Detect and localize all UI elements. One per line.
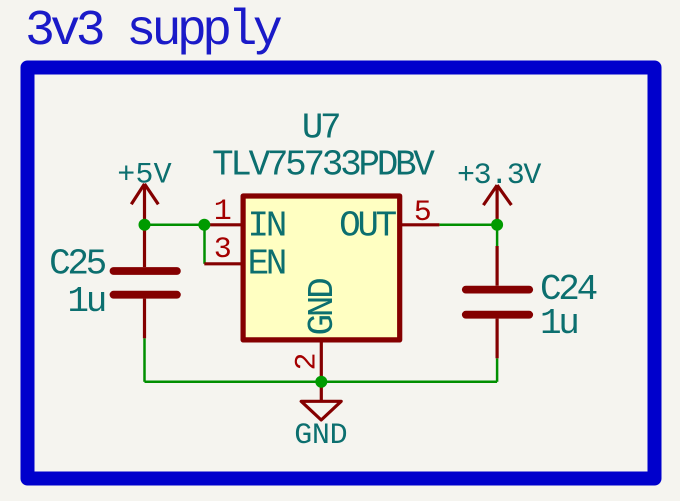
- power symbol +5V: [131, 184, 158, 225]
- svg-text:GND: GND: [294, 419, 347, 453]
- power symbol GND: [301, 382, 341, 420]
- pin 3 EN: [204, 262, 243, 265]
- wire ground bus: [145, 381, 498, 384]
- junction node +5V: [139, 219, 151, 231]
- svg-text:GND: GND: [302, 279, 343, 336]
- svg-text:1: 1: [214, 195, 231, 229]
- svg-text:TLV75733PDBV: TLV75733PDBV: [212, 144, 435, 185]
- svg-text:+3.3V: +3.3V: [457, 159, 541, 193]
- capacitor C25: [114, 225, 177, 338]
- regulator U7 body: [243, 196, 400, 340]
- wire C24 to ground bus: [496, 358, 499, 382]
- svg-text:3: 3: [214, 233, 231, 267]
- svg-text:IN: IN: [248, 206, 285, 247]
- pin 1 IN: [204, 223, 243, 226]
- wire EN drop: [203, 225, 206, 264]
- svg-text:2: 2: [291, 354, 325, 371]
- pin 5 OUT: [400, 223, 440, 226]
- pin 2 GND: [320, 340, 323, 380]
- svg-text:C25: C25: [49, 244, 106, 285]
- wire +3.3V node to C24: [496, 225, 499, 246]
- wire +5V node to pin1: [145, 224, 205, 227]
- junction node GND: [315, 376, 327, 388]
- svg-text:+5V: +5V: [117, 158, 172, 192]
- svg-text:OUT: OUT: [339, 206, 397, 247]
- wire C25 to ground bus: [143, 338, 146, 382]
- svg-text:U7: U7: [302, 107, 339, 148]
- junction node IN: [198, 219, 210, 231]
- wire OUT to +3.3V node: [439, 224, 497, 227]
- svg-text:1u: 1u: [67, 281, 104, 322]
- svg-text:5: 5: [414, 196, 431, 230]
- svg-text:EN: EN: [248, 244, 285, 285]
- svg-text:1u: 1u: [540, 303, 577, 344]
- power symbol +3.3V: [483, 185, 511, 225]
- svg-text:3v3 supply: 3v3 supply: [25, 3, 282, 60]
- capacitor C24: [466, 246, 529, 358]
- junction node +3.3V: [491, 219, 503, 231]
